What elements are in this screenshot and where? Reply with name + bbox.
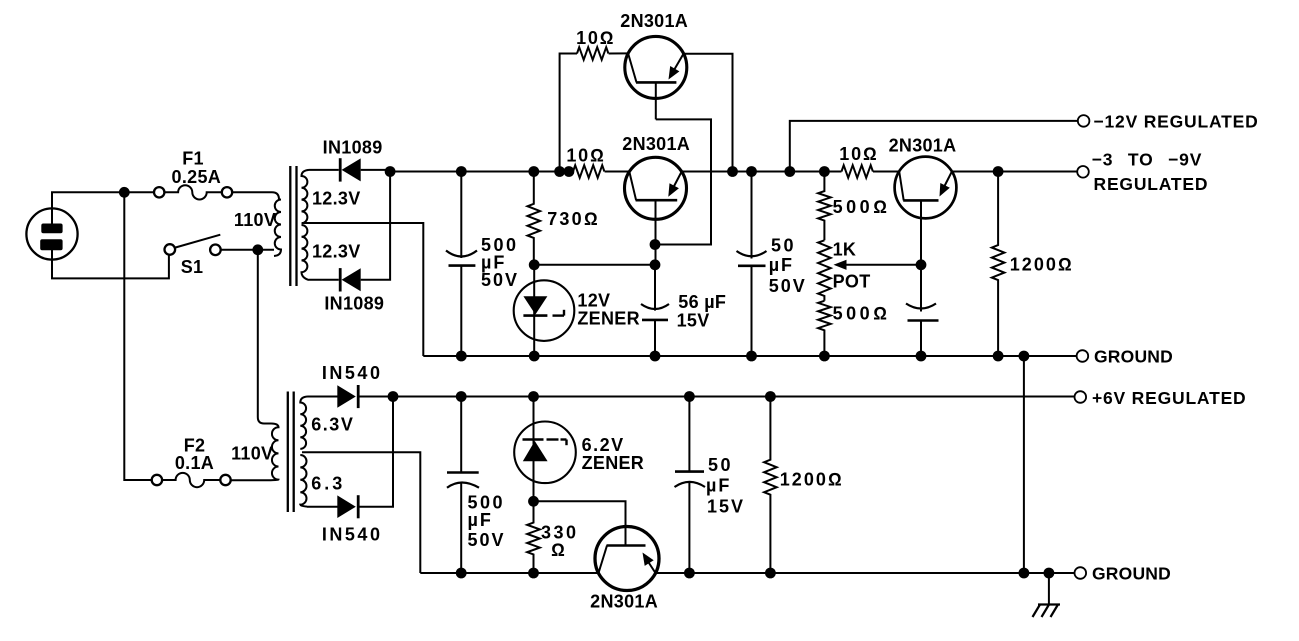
wire D4 to +6V rail node	[358, 396, 393, 398]
svg-text:1200Ω: 1200Ω	[1010, 255, 1074, 275]
transistor Q3 2N301A (right)	[895, 157, 957, 265]
svg-text:−12V REGULATED: −12V REGULATED	[1094, 112, 1259, 132]
svg-text:2N301A: 2N301A	[889, 136, 957, 156]
svg-text:0.25A: 0.25A	[172, 167, 222, 187]
svg-text:500Ω: 500Ω	[833, 197, 891, 217]
junction dot C4/ground rail	[916, 351, 927, 362]
junction dot C2/ground rail	[650, 351, 661, 362]
junction dot C5/lower rail	[456, 568, 467, 579]
svg-text:12.3V: 12.3V	[312, 189, 361, 209]
junction dot C6/+6V rail	[684, 391, 695, 402]
junction dot D4/D5 outputs	[388, 391, 399, 402]
svg-text:ZENER: ZENER	[577, 309, 640, 329]
svg-text:12V: 12V	[577, 291, 610, 311]
resistor R12 1200 ohm (bottom)	[764, 397, 777, 574]
wire R2 to Q2	[605, 171, 630, 173]
transistor Q1 2N301A (top)	[625, 36, 687, 119]
capacitor C2 56uF 15V	[641, 265, 669, 356]
node A (line junction top-left)	[119, 187, 130, 198]
junction dot divider chain/top rail	[819, 166, 830, 177]
resistor R7 500 ohm (top of divider)	[818, 172, 831, 241]
junction dot Q3 base/pot wiper	[916, 259, 927, 270]
transistor Q2 2N301A (middle)	[625, 157, 687, 264]
transformer T1 core	[290, 166, 296, 286]
transistor Q4 2N301A (bottom)	[595, 527, 659, 591]
zener diode D3 12V	[514, 265, 575, 356]
transformer T2 core	[288, 392, 294, 513]
diode D5 IN540 (bottom)	[307, 495, 358, 518]
svg-text:1K: 1K	[833, 240, 857, 260]
junction dot Q2 emitter/730 ohm node	[650, 259, 661, 270]
junction dot ground link/ground rail	[1019, 351, 1030, 362]
transformer T1 secondary top winding 12.3V	[302, 170, 310, 223]
wire F2 to T2 primary	[231, 479, 272, 481]
svg-text:1200Ω: 1200Ω	[780, 470, 844, 490]
svg-text:50: 50	[771, 236, 796, 256]
junction dot 1200 ohm/lower rail	[765, 568, 776, 579]
potentiometer R8 1K POT	[818, 240, 921, 300]
svg-text:REGULATED: REGULATED	[1094, 174, 1209, 194]
junction dot C1/top rail	[456, 166, 467, 177]
junction dot divider/ground rail	[819, 351, 830, 362]
transformer T2 secondary bottom winding 6.3	[300, 455, 307, 507]
diode D1 IN1089 (top)	[309, 158, 361, 181]
svg-text:50V: 50V	[769, 276, 807, 296]
resistor R6 10 ohm (Q3 base)	[842, 165, 873, 178]
resistor R1 10 ohm (Q1) with branch wire	[560, 47, 629, 171]
svg-text:ZENER: ZENER	[582, 453, 645, 473]
capacitor C5 500uF 50V (bottom)	[447, 397, 479, 574]
junction dot 1200 ohm/top rail	[993, 166, 1004, 177]
wire top rail (right part, to -3 to -9V terminal)	[952, 171, 1077, 173]
svg-text:Ω: Ω	[551, 540, 565, 560]
junction dot D6 bottom node	[528, 496, 539, 507]
svg-text:110V: 110V	[231, 443, 273, 463]
fuse F2	[152, 473, 231, 487]
wire Q1 base to Q2 emitter node	[655, 119, 711, 244]
switch S1	[165, 235, 221, 255]
junction dot -12V branch/top rail	[784, 166, 795, 177]
svg-text:2N301A: 2N301A	[620, 11, 688, 31]
svg-text:50: 50	[708, 455, 733, 475]
resistor R10 1200 ohm	[992, 172, 1005, 357]
wire node B down to transformer T2 primary	[258, 250, 272, 424]
wire D2 output up to top rail	[361, 172, 390, 280]
svg-text:IN1089: IN1089	[324, 294, 384, 314]
wire D6 node to Q4 base	[534, 501, 626, 545]
svg-text:+6V REGULATED: +6V REGULATED	[1092, 388, 1246, 408]
svg-text:2N301A: 2N301A	[622, 134, 690, 154]
resistor R11 330 ohm	[527, 501, 540, 573]
junction dot D6/+6V rail	[528, 391, 539, 402]
resistor R9 500 ohm (bottom of divider)	[818, 301, 831, 356]
svg-text:IN1089: IN1089	[323, 138, 383, 158]
svg-text:15V: 15V	[677, 311, 710, 331]
junction dot Q2 emitter/Q1 base	[650, 239, 661, 250]
terminal -12V REGULATED	[1078, 115, 1090, 127]
junction dot 730 ohm/top rail	[528, 166, 539, 177]
svg-text:56 µF: 56 µF	[678, 292, 726, 312]
svg-text:50V: 50V	[468, 530, 506, 550]
wire S1 to transformer T1 primary	[221, 249, 274, 251]
wire T1 center tap to ground rail	[302, 223, 423, 356]
junction dot C5/+6V rail	[456, 391, 467, 402]
wire +6V rail	[393, 396, 1075, 398]
wire F1 to T1 primary	[232, 191, 272, 193]
junction dot chassis ground/lower rail	[1044, 568, 1055, 579]
svg-text:S1: S1	[181, 257, 204, 277]
svg-text:10Ω: 10Ω	[566, 146, 605, 166]
svg-text:GROUND: GROUND	[1092, 564, 1171, 584]
diode D2 IN1089 (bottom)	[309, 268, 361, 291]
transformer T2 primary winding 110V	[271, 424, 279, 481]
svg-text:12.3V: 12.3V	[312, 242, 361, 262]
svg-text:IN540: IN540	[322, 524, 383, 544]
terminal GROUND (lower)	[1075, 567, 1087, 579]
junction dot C1/ground rail	[456, 351, 467, 362]
svg-text:GROUND: GROUND	[1094, 347, 1173, 367]
junction dot R2/top rail	[564, 166, 575, 177]
svg-text:µF: µF	[468, 510, 493, 530]
wire R6 to Q3	[873, 171, 899, 173]
zener diode D6 6.2V	[514, 397, 576, 502]
wire 730 ohm node to Q2 emitter column	[534, 264, 655, 266]
resistor R2 10 ohm (Q2 base)	[573, 165, 604, 178]
svg-text:10Ω: 10Ω	[839, 144, 878, 164]
svg-text:0.1A: 0.1A	[175, 453, 214, 473]
junction dot C3/ground rail	[746, 351, 757, 362]
wire top rail (rectifier output, left part)	[390, 171, 573, 173]
wire ground link between rails	[1023, 356, 1025, 573]
svg-text:730Ω: 730Ω	[547, 209, 600, 229]
junction dot 1200 ohm/+6V rail	[765, 391, 776, 402]
junction dot C3/top rail	[746, 166, 757, 177]
wire upper ground rail	[423, 355, 1076, 357]
svg-text:F1: F1	[182, 149, 204, 169]
svg-text:110V: 110V	[234, 210, 276, 230]
wire plug bottom to switch S1	[52, 250, 169, 278]
terminal -3 TO -9V REGULATED	[1077, 166, 1089, 178]
svg-text:50V: 50V	[481, 270, 519, 290]
wire plug top to fuse F1	[52, 192, 154, 223]
wire -12V branch	[790, 121, 1078, 172]
svg-text:6.3: 6.3	[311, 473, 345, 493]
junction dot Q1 emitter/top rail	[727, 166, 738, 177]
svg-text:µF: µF	[706, 475, 731, 495]
wire top rail (middle part Q2 to Q3)	[682, 171, 842, 173]
transformer T2 secondary top winding 6.3V	[300, 397, 307, 449]
junction dot ground link/lower rail	[1019, 568, 1030, 579]
svg-text:2N301A: 2N301A	[590, 591, 658, 611]
junction dot D3/ground rail	[529, 351, 540, 362]
junction dot 330 ohm/lower rail	[528, 568, 539, 579]
wire lower ground rail (right of Q4)	[656, 572, 1075, 574]
node B (junction at S1 output)	[252, 244, 263, 255]
terminal +6V REGULATED	[1075, 391, 1087, 403]
svg-text:−3 TO −9V: −3 TO −9V	[1092, 150, 1203, 170]
AC plug P1	[26, 208, 77, 259]
wire node A down to fuse F2	[124, 192, 152, 480]
svg-text:500Ω: 500Ω	[833, 304, 891, 324]
junction dot Q1 branch/top rail	[554, 166, 565, 177]
chassis ground symbol	[1033, 573, 1061, 617]
resistor R4 730 ohm	[528, 172, 541, 265]
capacitor C4 (Q3 base, unlabeled)	[906, 265, 939, 356]
svg-text:6.2V: 6.2V	[582, 435, 625, 455]
junction dot D1/D2 outputs	[385, 166, 396, 177]
svg-text:µF: µF	[769, 255, 794, 275]
diode D4 IN540 (top)	[308, 385, 359, 408]
terminal GROUND (upper)	[1077, 350, 1089, 362]
svg-text:15V: 15V	[707, 496, 745, 516]
wire D1 to top rail node	[361, 170, 391, 172]
junction dot C6/lower rail	[684, 568, 695, 579]
svg-text:IN540: IN540	[322, 363, 383, 383]
fuse F1	[154, 185, 232, 199]
wire D5 output up to +6V rail	[358, 397, 393, 507]
capacitor C1 500uF 50V	[446, 172, 477, 357]
wire Q1 emitter down to top rail	[684, 54, 733, 172]
wire lower ground rail (left of Q4)	[420, 572, 598, 574]
junction dot 1200 ohm/ground rail	[993, 351, 1004, 362]
svg-text:10Ω: 10Ω	[576, 28, 615, 48]
wire T2 center tap to lower ground rail	[302, 452, 420, 573]
junction dot 730 ohm bottom	[529, 259, 540, 270]
svg-text:6.3V: 6.3V	[311, 414, 354, 434]
transformer T1 secondary bottom winding 12.3V	[302, 225, 310, 280]
svg-text:POT: POT	[833, 272, 871, 292]
capacitor C3 50uF 50V	[737, 172, 767, 357]
transformer T1 primary winding 110V	[272, 192, 281, 256]
capacitor C6 50uF 15V	[675, 397, 706, 574]
